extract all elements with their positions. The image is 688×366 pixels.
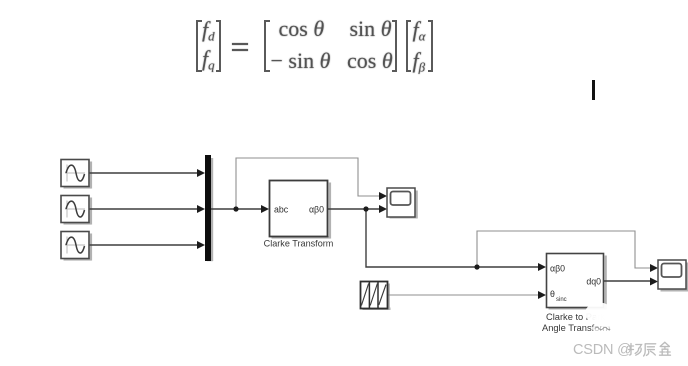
svg-text:αβ0: αβ0 <box>550 264 565 274</box>
svg-text:dq0: dq0 <box>586 277 601 287</box>
svg-text:sinc: sinc <box>556 297 567 303</box>
svg-text:θ: θ <box>550 289 555 299</box>
svg-text:CSDN @: CSDN @ <box>573 342 632 358</box>
svg-text:Clarke Transform: Clarke Transform <box>264 239 334 249</box>
svg-text:αβ0: αβ0 <box>309 205 324 215</box>
svg-text:abc: abc <box>274 205 289 215</box>
